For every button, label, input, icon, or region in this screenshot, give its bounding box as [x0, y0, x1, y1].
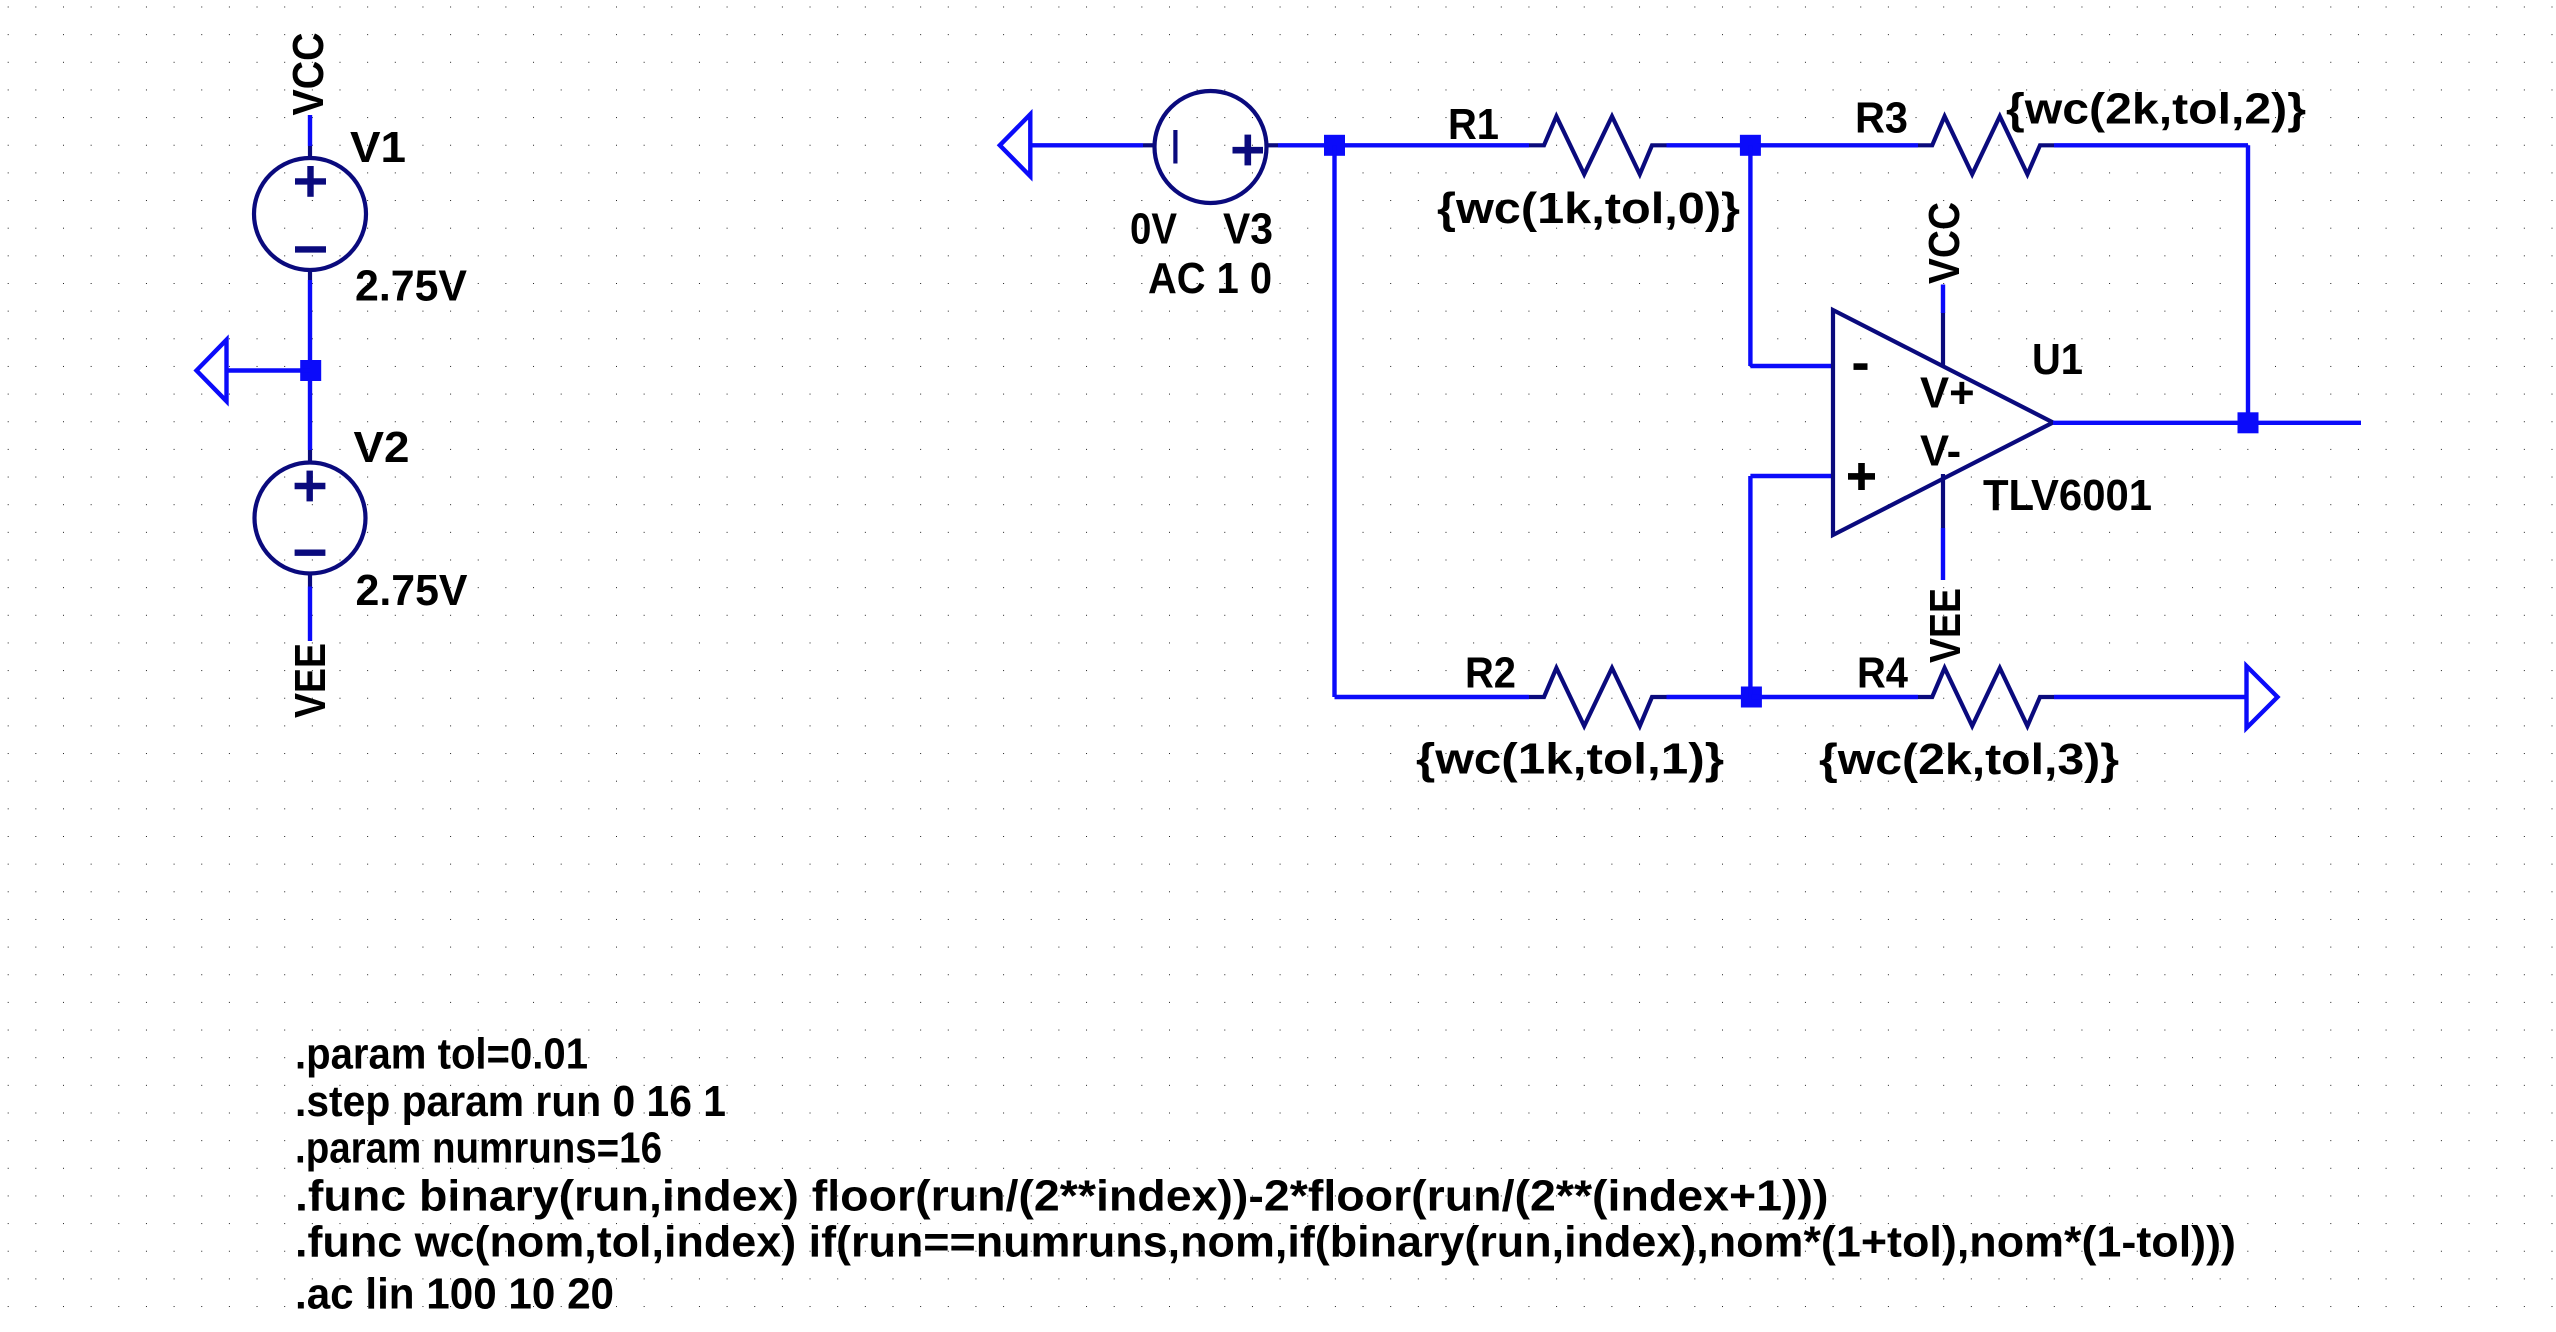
svg-text:.func binary(run,index) floor(: .func binary(run,index) floor(run/(2**in…	[295, 1173, 1829, 1221]
svg-text:VEE: VEE	[1922, 588, 1970, 663]
junction	[1741, 687, 1762, 708]
wire	[2054, 143, 2248, 147]
svg-text:{wc(1k,tol,0)}: {wc(1k,tol,0)}	[1437, 185, 1740, 233]
svg-text:.param tol=0.01: .param tol=0.01	[295, 1031, 588, 1079]
svg-text:2.75V: 2.75V	[356, 567, 468, 615]
wire	[1751, 695, 1918, 699]
junction	[1740, 135, 1761, 156]
op-amp plus mark	[1848, 463, 1875, 490]
svg-text:V1: V1	[350, 124, 406, 172]
svg-text:.ac lin 100 10 20: .ac lin 100 10 20	[295, 1270, 614, 1318]
svg-text:{wc(2k,tol,2)}: {wc(2k,tol,2)}	[2006, 86, 2306, 134]
wire	[1750, 364, 1833, 368]
svg-text:TLV6001: TLV6001	[1983, 472, 2152, 520]
wire	[2053, 421, 2361, 425]
svg-text:R3: R3	[1855, 95, 1908, 143]
port flag (common node, left arrow)	[197, 340, 227, 401]
svg-text:V-: V-	[1920, 427, 1961, 475]
wire	[2054, 695, 2247, 699]
wire	[2246, 145, 2250, 423]
resistor R3	[1918, 116, 2054, 174]
voltage source V2	[255, 450, 366, 587]
svg-text:.step param run 0 16 1: .step param run 0 16 1	[295, 1078, 726, 1126]
wire	[1667, 143, 1758, 147]
wire	[1667, 695, 1758, 699]
svg-text:{wc(2k,tol,3)}: {wc(2k,tol,3)}	[1819, 736, 2119, 784]
wire	[1278, 143, 1529, 147]
wire	[1748, 145, 1752, 366]
svg-text:.param numruns=16: .param numruns=16	[295, 1125, 662, 1173]
wire	[308, 115, 312, 146]
svg-text:V+: V+	[1920, 369, 1975, 417]
svg-text:VCC: VCC	[285, 33, 333, 116]
svg-text:R4: R4	[1857, 650, 1909, 698]
port flag input (V3 left arrow)	[1000, 114, 1031, 176]
resistor R4	[1918, 668, 2054, 726]
svg-text:0V: 0V	[1130, 206, 1177, 254]
wire	[1941, 528, 1945, 580]
wire	[1750, 474, 1833, 478]
svg-text:U1: U1	[2032, 336, 2083, 384]
port flag output (right arrow)	[2247, 666, 2278, 728]
op-amp minus mark	[1854, 363, 1868, 370]
wire	[1031, 143, 1144, 147]
wire	[1941, 285, 1945, 314]
svg-text:AC 1 0: AC 1 0	[1148, 255, 1272, 303]
op-amp U1	[1833, 310, 2053, 535]
wire	[308, 587, 312, 642]
wire	[227, 368, 311, 372]
wire	[308, 280, 312, 450]
svg-text:VEE: VEE	[287, 643, 335, 718]
svg-text:.func wc(nom,tol,index) if(run: .func wc(nom,tol,index) if(run==numruns,…	[295, 1219, 2236, 1267]
resistor R1	[1529, 116, 1667, 174]
svg-text:{wc(1k,tol,1)}: {wc(1k,tol,1)}	[1416, 736, 1724, 784]
junction	[300, 360, 321, 381]
wire	[1332, 145, 1336, 697]
wire	[1335, 695, 1530, 699]
svg-text:V2: V2	[354, 424, 410, 472]
voltage source V1	[254, 146, 366, 280]
wire	[1757, 143, 1918, 147]
svg-text:R1: R1	[1448, 101, 1499, 149]
junction	[1324, 135, 1345, 156]
svg-text:VCC: VCC	[1921, 202, 1969, 284]
junction	[2238, 412, 2259, 433]
resistor R2	[1529, 668, 1667, 726]
wire	[1748, 476, 1752, 697]
svg-text:V3: V3	[1223, 206, 1273, 254]
svg-text:2.75V: 2.75V	[355, 263, 467, 311]
svg-text:R2: R2	[1465, 650, 1516, 698]
voltage source V3	[1143, 91, 1278, 203]
